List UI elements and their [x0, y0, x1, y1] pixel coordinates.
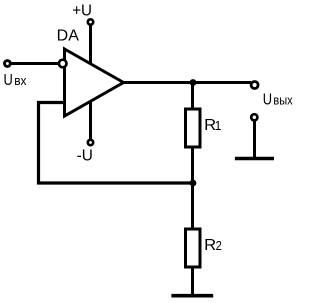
wire output	[124, 81, 252, 84]
svg-text:1: 1	[215, 118, 222, 133]
svg-text:U: U	[263, 92, 272, 109]
wire node to R1	[191, 83, 194, 113]
wire common terminal to bar	[253, 121, 256, 159]
wire input to op-amp	[10, 62, 59, 65]
wire inverting input feedback (left, down, right to node)	[39, 103, 194, 184]
terminal -U	[88, 140, 93, 145]
node A junction dot	[190, 79, 197, 86]
svg-text:DA: DA	[57, 28, 80, 45]
wire +U supply	[89, 24, 92, 65]
svg-text:вых: вых	[273, 93, 293, 108]
node B junction dot	[190, 180, 197, 187]
op-amp input bubble	[59, 60, 67, 68]
terminal Uvx	[5, 61, 11, 67]
wire R2 to ground	[191, 266, 194, 296]
ground bar right	[235, 157, 274, 160]
wire node B to R2	[191, 183, 194, 231]
op-amp DA triangle	[65, 49, 124, 116]
wire R1 to node B	[191, 146, 194, 186]
resistor R2	[186, 229, 201, 267]
svg-text:вх: вх	[14, 73, 27, 88]
ground bar bottom	[171, 294, 213, 298]
svg-text:2: 2	[216, 238, 222, 253]
svg-text:U: U	[4, 72, 13, 89]
resistor R1	[186, 109, 201, 147]
terminal Uvyh	[251, 82, 258, 89]
svg-text:R: R	[204, 237, 216, 254]
wire -U supply	[89, 100, 92, 140]
svg-text:+U: +U	[72, 3, 92, 20]
terminal common output	[251, 114, 257, 120]
terminal +U	[88, 19, 93, 24]
svg-text:-U: -U	[77, 148, 93, 165]
